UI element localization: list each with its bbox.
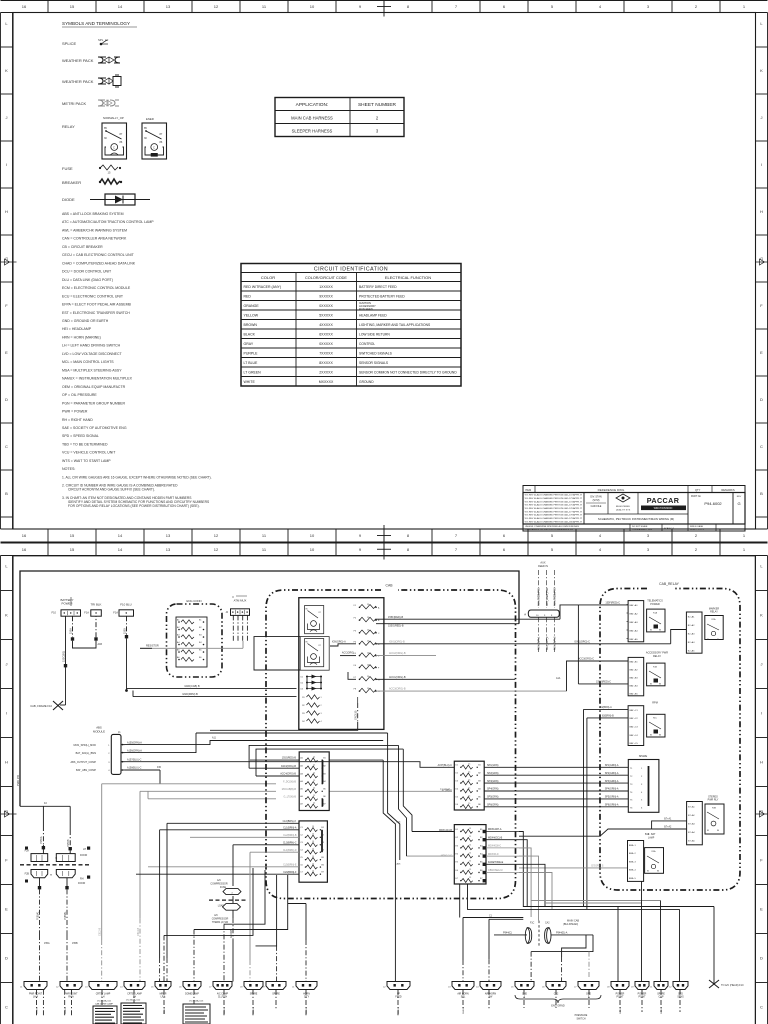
svg-text:FOR OPTIONS AND RELAY LOCATION: FOR OPTIONS AND RELAY LOCATIONS (SEE POW… <box>68 504 200 508</box>
svg-text:LH = LEFT HAND DRIVING SWITCH: LH = LEFT HAND DRIVING SWITCH <box>62 344 121 348</box>
svg-text:MAIN CAB HARNESS: MAIN CAB HARNESS <box>291 116 333 121</box>
svg-text:15: 15 <box>313 795 315 797</box>
connector: AIR HORN SOL <box>448 982 474 999</box>
page 1 sheet border and ruler zones <box>1 0 768 546</box>
svg-text:15: 15 <box>468 795 470 797</box>
relay symbol K2 energized <box>142 117 167 159</box>
svg-text:B7+A2: B7+A2 <box>688 814 695 817</box>
svg-text:AWL = AMBER/CHK WARNING SYSTEM: AWL = AMBER/CHK WARNING SYSTEM <box>62 228 127 232</box>
detail inset box: courtesy lamp RH <box>121 999 146 1024</box>
svg-text:81(BRN)-A: 81(BRN)-A <box>600 706 612 709</box>
wire: FRC fuse D out to cab relay <box>376 630 686 644</box>
svg-text:BBB+5: BBB+5 <box>629 878 637 880</box>
wires: block3 feeds <box>438 764 453 792</box>
svg-text:F_DC(06)-B: F_DC(06)-B <box>283 780 296 783</box>
svg-text:15: 15 <box>312 871 314 873</box>
svg-text:LH: LH <box>83 848 86 851</box>
svg-text:ACC3(ORG)-C: ACC3(ORG)-C <box>578 658 594 661</box>
svg-text:155J(RED)-B: 155J(RED)-B <box>282 757 297 760</box>
svg-text:SLEEPER HARNESS: SLEEPER HARNESS <box>292 129 333 134</box>
svg-text:SWITCH: SWITCH <box>576 1018 585 1020</box>
svg-text:2XXXXX: 2XXXXX <box>319 371 333 375</box>
telematics power relay pin block <box>627 600 664 642</box>
svg-text:SP5(GRN): SP5(GRN) <box>487 796 499 799</box>
svg-text:B7+A5: B7+A5 <box>688 840 695 843</box>
svg-text:CA2: CA2 <box>545 922 550 925</box>
svg-text:15: 15 <box>312 849 314 851</box>
svg-text:C512-B: C512-B <box>99 927 102 936</box>
svg-text:P944(D)-A: P944(D)-A <box>556 931 568 934</box>
svg-text:15: 15 <box>313 788 315 790</box>
svg-text:1XXXXX: 1XXXXX <box>319 285 333 289</box>
svg-text:F10 BLU: F10 BLU <box>120 603 131 607</box>
svg-text:B: B <box>5 491 8 496</box>
svg-text:85: 85 <box>650 630 652 632</box>
svg-text:C513-B: C513-B <box>137 927 140 936</box>
marker relay <box>705 608 723 642</box>
application / sheet number table <box>275 98 404 137</box>
svg-text:REGISTERED: REGISTERED <box>616 506 631 508</box>
svg-text:%% REV 04-AUG CHANGED PER ECN: %% REV 04-AUG CHANGED PER ECN 0041-174 A… <box>525 500 583 503</box>
separator dashed line between door pairs <box>20 864 90 866</box>
brace: engine ground group <box>515 995 601 1008</box>
svg-text:HEADLAMP FEED: HEADLAMP FEED <box>359 314 387 318</box>
svg-text:DLU = DATA LINK (DIAG PORT): DLU = DATA LINK (DIAG PORT) <box>62 278 113 282</box>
svg-text:172-B04A-C02: 172-B04A-C02 <box>126 999 141 1002</box>
svg-text:BAT+B3: BAT+B3 <box>630 677 639 680</box>
svg-text:SWITCHED SIGNALS: SWITCHED SIGNALS <box>359 352 393 356</box>
svg-text:RELAY: RELAY <box>653 655 661 658</box>
wire: ABS pin4 run <box>125 767 162 784</box>
wire: bulkhead through runs <box>494 934 527 936</box>
svg-text:CRTSY LAMP: CRTSY LAMP <box>127 993 142 996</box>
svg-text:SPL_A2: SPL_A2 <box>98 38 109 42</box>
svg-text:BBB+3: BBB+3 <box>629 861 637 863</box>
FRC relay K11 <box>300 637 329 671</box>
svg-text:I: I <box>761 162 762 167</box>
drawing number cell <box>691 493 742 525</box>
svg-text:TO A/C (HEAD) F10: TO A/C (HEAD) F10 <box>721 984 744 987</box>
svg-text:A/C: A/C <box>214 914 218 917</box>
accessory relay <box>647 663 665 686</box>
svg-text:CHAD = COMPUTERIZED AHEAD DATA: CHAD = COMPUTERIZED AHEAD DATA LINK <box>62 261 136 265</box>
svg-text:G: G <box>737 501 740 506</box>
heading: SYMBOLS AND TERMINOLOGY <box>62 21 137 27</box>
svg-text:PWR = POWER: PWR = POWER <box>62 410 88 414</box>
lower spare pin block <box>628 833 656 881</box>
svg-text:SHEET 1 OF 3: SHEET 1 OF 3 <box>690 529 705 531</box>
wire: FRC relay K11 input loop <box>254 637 356 670</box>
wire: ABS pin1 run to relay loop <box>125 737 383 745</box>
FRC relay K10 <box>305 606 324 634</box>
svg-text:RH: RH <box>80 878 84 881</box>
svg-text:14: 14 <box>118 4 123 9</box>
svg-text:GND(CAB) B: GND(CAB) B <box>184 684 200 688</box>
svg-text:1. ALL CIR WIRE GAUGES ARE 16: 1. ALL CIR WIRE GAUGES ARE 16 GAUGE, EXC… <box>62 476 212 480</box>
cab fuse block 4 <box>454 825 486 884</box>
wire: ABS pin2 run <box>125 733 388 753</box>
svg-text:4XXXXX: 4XXXXX <box>319 323 333 327</box>
svg-text:6XXXXX: 6XXXXX <box>319 333 333 337</box>
svg-text:BAT+A4: BAT+A4 <box>630 630 639 633</box>
svg-text:SPD = SPEED SIGNAL: SPD = SPEED SIGNAL <box>62 434 99 438</box>
connector: CRTSY LAMP LH <box>85 982 117 999</box>
svg-text:F7 (06)-C: F7 (06)-C <box>442 789 453 792</box>
title block bottom strip <box>523 524 745 531</box>
svg-text:BAT+A3: BAT+A3 <box>630 621 639 624</box>
title block main <box>523 493 745 525</box>
svg-text:15: 15 <box>313 765 315 767</box>
FRC resistor rows <box>302 695 321 723</box>
svg-text:15: 15 <box>469 861 471 863</box>
svg-text:E: E <box>760 350 763 355</box>
svg-text:85: 85 <box>647 871 649 873</box>
marker lamp pin block <box>686 612 702 653</box>
svg-text:BAT+B5: BAT+B5 <box>630 693 639 696</box>
svg-text:SP3(GRN)-A: SP3(GRN)-A <box>605 780 619 783</box>
svg-text:DOME LAMP: DOME LAMP <box>185 993 199 996</box>
svg-text:AUX_OUT_3: AUX_OUT_3 <box>553 636 556 650</box>
svg-text:(BULKHEAD): (BULKHEAD) <box>563 923 578 926</box>
svg-text:B2+A5: B2+A5 <box>688 650 695 653</box>
svg-text:DOOR: DOOR <box>78 882 85 885</box>
svg-text:GND B: GND B <box>37 1007 39 1014</box>
wire: block1 bus out <box>329 759 383 761</box>
svg-text:10: 10 <box>310 533 315 538</box>
svg-text:D: D <box>5 397 8 402</box>
connector: A/C COMP CLUTCH <box>209 982 232 999</box>
svg-text:BAT+C5: BAT+C5 <box>630 742 639 745</box>
wire: gray horizontal rail into block1 row4 <box>102 783 276 785</box>
svg-text:R1C: R1C <box>653 718 658 720</box>
svg-text:COLOR/CIRCUIT CODE: COLOR/CIRCUIT CODE <box>305 276 347 280</box>
svg-text:15: 15 <box>468 787 470 789</box>
wire: gray engine signal run <box>140 641 243 648</box>
svg-text:ACC4(ORG)-B: ACC4(ORG)-B <box>280 773 296 776</box>
connector: POWER POINT <box>607 982 629 999</box>
svg-text:WINCH DIVISION: WINCH DIVISION <box>654 508 673 510</box>
wire: gray rail 2 <box>137 791 140 981</box>
svg-text:MSA = MULTIPLEX STEERING ASSY: MSA = MULTIPLEX STEERING ASSY <box>62 368 122 372</box>
svg-text:GND(FRM) B: GND(FRM) B <box>182 692 198 696</box>
accessory power relay pin block <box>628 652 668 696</box>
svg-text:R4: R4 <box>302 721 304 723</box>
svg-text:86: 86 <box>717 830 719 832</box>
svg-text:CAB: CAB <box>386 584 394 588</box>
svg-text:E: E <box>760 907 763 912</box>
svg-text:CAD FILE: CAD FILE <box>591 505 602 508</box>
connector: CB2 <box>542 982 566 996</box>
svg-text:SENSOR SIGNALS: SENSOR SIGNALS <box>359 361 389 365</box>
svg-text:B7+A2: B7+A2 <box>664 826 672 829</box>
svg-text:PWR RLY: PWR RLY <box>708 799 719 802</box>
svg-text:%% REV 04-AUG CHANGED PER ECN: %% REV 04-AUG CHANGED PER ECN 0041-180 A… <box>525 520 583 523</box>
wire: marker lamp run left column <box>167 820 299 982</box>
svg-text:155B: 155B <box>123 628 126 634</box>
svg-text:86: 86 <box>659 735 661 737</box>
svg-text:LVD = LOW VOLTAGE DISCONNECT: LVD = LOW VOLTAGE DISCONNECT <box>62 352 122 356</box>
svg-text:PART No: PART No <box>691 495 702 498</box>
fuse symbol legend <box>62 165 121 175</box>
svg-text:BLACK: BLACK <box>244 333 256 337</box>
svg-text:14: 14 <box>118 533 123 538</box>
svg-text:GROUND: GROUND <box>359 380 374 384</box>
svg-text:155A: 155A <box>44 942 50 945</box>
svg-text:SP2(GRN)-A: SP2(GRN)-A <box>605 772 619 775</box>
svg-text:13: 13 <box>166 547 171 552</box>
svg-text:BAT+B4: BAT+B4 <box>630 685 639 688</box>
svg-text:D: D <box>760 397 763 402</box>
svg-text:MCCAB(B)-B: MCCAB(B)-B <box>282 788 297 791</box>
svg-text:P94-6002: P94-6002 <box>704 501 722 506</box>
svg-text:ECM = ELECTRONIC CONTROL MODUL: ECM = ELECTRONIC CONTROL MODULE <box>62 286 131 290</box>
svg-text:D1: D1 <box>301 677 303 679</box>
svg-text:SPARE: SPARE <box>250 993 258 996</box>
circuit breaker symbol legend <box>62 179 122 185</box>
svg-text:IGN4(ORG)-B: IGN4(ORG)-B <box>281 765 296 768</box>
svg-text:BAT+B2: BAT+B2 <box>630 669 639 672</box>
svg-text:SP6(GRN): SP6(GRN) <box>487 804 499 807</box>
svg-text:EFPA = ELECT FOOT PEDAL AIR AS: EFPA = ELECT FOOT PEDAL AIR ASSEMB <box>62 303 131 307</box>
svg-text:C: C <box>5 444 8 449</box>
svg-text:SENS: SENS <box>677 997 684 999</box>
svg-text:MDX4038-C: MDX4038-C <box>488 845 501 848</box>
svg-text:SP4(GRN)-A: SP4(GRN)-A <box>605 788 619 791</box>
svg-text:ACC2(ORG)-B: ACC2(ORG)-B <box>389 652 406 655</box>
svg-text:2: 2 <box>321 705 322 707</box>
svg-text:R3B: R3B <box>712 808 717 810</box>
label: pressure switch <box>575 1015 588 1020</box>
svg-text:AUX_FEED_PW3: AUX_FEED_PW3 <box>553 587 556 606</box>
svg-text:K: K <box>760 68 763 73</box>
svg-text:MDX4(GC)-B: MDX4(GC)-B <box>488 836 503 839</box>
svg-text:82(BRN)-B: 82(BRN)-B <box>602 715 614 718</box>
svg-text:15: 15 <box>468 772 470 774</box>
svg-text:ENG CONN: ENG CONN <box>186 599 201 603</box>
svg-text:155B: 155B <box>72 942 78 945</box>
svg-text:MODULE: MODULE <box>93 729 105 733</box>
svg-text:GND B: GND B <box>224 1007 226 1014</box>
svg-text:GND B: GND B <box>620 1007 622 1014</box>
svg-text:C: C <box>113 145 115 149</box>
svg-text:CL0(BRN)-X: CL0(BRN)-X <box>283 820 297 823</box>
svg-text:P155A: P155A <box>40 836 43 844</box>
wire: FRC fuse H out gray to accessory relay <box>376 658 628 691</box>
svg-text:C: C <box>760 1005 763 1010</box>
svg-text:155F(RED)-B: 155F(RED)-B <box>388 616 403 619</box>
svg-text:WTS = WAIT TO START LAMP: WTS = WAIT TO START LAMP <box>62 459 111 463</box>
svg-text:SHEET NUMBER: SHEET NUMBER <box>358 102 397 108</box>
svg-text:GND B: GND B <box>253 1007 255 1014</box>
ABS module connector <box>70 726 125 775</box>
svg-text:RH = RIGHT HAND: RH = RIGHT HAND <box>62 418 93 422</box>
svg-text:AUX_FEED_PW1: AUX_FEED_PW1 <box>538 587 541 606</box>
svg-text:86: 86 <box>657 871 659 873</box>
svg-text:85: 85 <box>650 735 652 737</box>
svg-text:R2: R2 <box>302 705 304 707</box>
svg-text:D7(GRY) S: D7(GRY) S <box>591 865 603 868</box>
svg-text:15: 15 <box>312 841 314 843</box>
svg-text:LP A: LP A <box>161 996 166 999</box>
connector: 4-pin junction above gray wire <box>225 596 249 641</box>
svg-text:%% REV 04-AUG CHANGED PER ECN: %% REV 04-AUG CHANGED PER ECN 0041-175 A… <box>525 504 583 507</box>
svg-text:A/C COMP: A/C COMP <box>217 993 229 996</box>
svg-text:BATTERY DIRECT FEED: BATTERY DIRECT FEED <box>359 285 397 289</box>
wire stubs below connectors <box>37 990 681 1016</box>
svg-text:A1B: A1B <box>98 643 103 646</box>
wire: gray rail into block1 row6 <box>148 791 276 799</box>
svg-text:10: 10 <box>310 4 315 9</box>
svg-text:REMARKS: REMARKS <box>721 488 734 492</box>
svg-text:F1A: F1A <box>84 611 89 615</box>
svg-text:15: 15 <box>312 834 314 836</box>
svg-text:DCU = DOOR CONTROL UNIT: DCU = DOOR CONTROL UNIT <box>62 270 112 274</box>
svg-text:SPD: SPD <box>678 994 683 996</box>
svg-text:A157(BLU)-C: A157(BLU)-C <box>438 764 453 767</box>
svg-text:12: 12 <box>214 547 219 552</box>
svg-text:15: 15 <box>468 780 470 782</box>
wire: battery pin1 down to frame splice <box>60 616 67 705</box>
svg-text:J: J <box>6 115 8 120</box>
svg-text:15: 15 <box>469 877 471 879</box>
wires: block4 left feed <box>407 829 455 857</box>
svg-text:15: 15 <box>312 856 314 858</box>
svg-text:NORMALLY_OP: NORMALLY_OP <box>103 116 124 120</box>
svg-text:A158(BLU)-C: A158(BLU)-C <box>127 767 142 770</box>
svg-text:IGN1(ORG)-B: IGN1(ORG)-B <box>389 640 405 643</box>
wire: lower distribution bus B <box>468 884 680 982</box>
svg-text:CB = CIRCUIT BREAKER: CB = CIRCUIT BREAKER <box>62 245 103 249</box>
svg-text:LT BLUE: LT BLUE <box>244 361 259 365</box>
svg-text:B2+A4: B2+A4 <box>688 641 695 644</box>
svg-text:FEED: FEED <box>395 997 401 999</box>
stereo relay <box>705 796 724 835</box>
svg-text:CONTROL: CONTROL <box>359 342 375 346</box>
svg-text:ENER: ENER <box>146 117 154 121</box>
svg-text:RUN FEED: RUN FEED <box>359 307 373 311</box>
splice symbol legend <box>62 38 109 46</box>
svg-text:WHITE: WHITE <box>244 380 256 384</box>
svg-text:B7+A3: B7+A3 <box>688 823 695 826</box>
svg-text:PWR POINT: PWR POINT <box>29 994 43 996</box>
svg-text:EST = ELECTRONIC TRANSFER SWIT: EST = ELECTRONIC TRANSFER SWITCH <box>62 311 130 315</box>
cab fuse block 3 <box>454 761 484 810</box>
PACCAR logo <box>641 496 686 510</box>
wire: block4 out run to stereo relay jog <box>519 818 687 837</box>
svg-text:CLUTCH: CLUTCH <box>218 997 228 999</box>
telematics relay <box>647 609 665 632</box>
svg-text:GND B: GND B <box>164 1007 166 1014</box>
wire: block4 gray out to spare E block <box>519 865 628 868</box>
svg-text:H: H <box>760 760 763 765</box>
cab fuse block 1 <box>299 752 329 811</box>
page 2 sheet border and ruler zones <box>1 539 768 1024</box>
svg-text:15: 15 <box>313 757 315 759</box>
svg-text:MDX36-D: MDX36-D <box>488 853 499 856</box>
svg-text:DOOR: DOOR <box>80 854 87 857</box>
svg-text:4: 4 <box>321 721 322 723</box>
svg-text:BAT+C2: BAT+C2 <box>630 717 639 720</box>
svg-text:BAT+A2: BAT+A2 <box>630 613 639 616</box>
svg-text:CAB_RELAY: CAB_RELAY <box>659 582 679 586</box>
svg-text:R2A: R2A <box>712 618 717 621</box>
abbreviation definitions list <box>62 212 154 463</box>
connector: TRI BLK feed <box>84 603 101 617</box>
svg-text:GND: GND <box>522 994 527 996</box>
connector: battery power feed <box>52 597 81 616</box>
svg-text:10: 10 <box>310 547 315 552</box>
svg-text:15: 15 <box>468 764 470 766</box>
svg-text:ATM MUX: ATM MUX <box>234 599 247 603</box>
svg-text:F1C: F1C <box>530 923 535 925</box>
svg-text:ATC = AUTOMATIC/AUTOM TRACTION: ATC = AUTOMATIC/AUTOM TRACTION CONTROL L… <box>62 220 154 224</box>
wire: b9 b10 feeds <box>277 904 306 982</box>
wire: F10 BLU down to ground bus junction <box>123 616 128 692</box>
connector: F10 BLU feed <box>113 603 133 617</box>
cab fuse block 2 <box>299 821 327 882</box>
wire bundle: mid verticals to bottom connectors <box>164 868 288 982</box>
wire: accessory relay pin4 feed <box>578 681 628 684</box>
svg-text:RPM: RPM <box>652 702 658 705</box>
wires: block4 right side outputs <box>486 828 519 872</box>
engine resistor pack <box>176 599 207 667</box>
svg-text:I: I <box>6 162 7 167</box>
svg-text:ABS_OUTPUT_COMP: ABS_OUTPUT_COMP <box>70 761 96 764</box>
svg-text:R3: R3 <box>302 713 304 715</box>
svg-text:PWR 155: PWR 155 <box>16 774 20 786</box>
svg-text:P944(C): P944(C) <box>503 931 512 934</box>
svg-text:REV: REV <box>737 496 742 498</box>
svg-text:ACC1(ORG)-B: ACC1(ORG)-B <box>389 676 406 679</box>
svg-text:LT GREEN: LT GREEN <box>244 371 262 375</box>
CAB region dash-dot boundary <box>266 584 516 899</box>
svg-text:CAN = CONTROLLER AREA NETWORK: CAN = CONTROLLER AREA NETWORK <box>62 237 127 241</box>
svg-text:CL2(BRN)-B: CL2(BRN)-B <box>283 834 297 837</box>
detail inset box: dome lamp <box>183 1000 210 1024</box>
svg-text:%% REV 04-AUG CHANGED PER ECN: %% REV 04-AUG CHANGED PER ECN 0041-176 A… <box>525 507 583 510</box>
stereo power pin block <box>687 802 703 845</box>
svg-text:AUX_OUT_1: AUX_OUT_1 <box>538 636 541 650</box>
metri pack connector symbol <box>62 100 119 106</box>
connector: PWR POINT RH A <box>56 982 82 999</box>
svg-text:15: 15 <box>70 533 75 538</box>
wire: FRC fuse A out pair <box>376 616 560 628</box>
svg-text:THERM (A) SW: THERM (A) SW <box>212 921 229 924</box>
CAB_RELAY region dash-dot boundary <box>600 582 740 890</box>
svg-text:MCN_SPD(L)_MOD: MCN_SPD(L)_MOD <box>73 744 96 747</box>
svg-text:155G(RED)-C: 155G(RED)-C <box>596 681 611 684</box>
svg-text:DO NOT SCALE: DO NOT SCALE <box>632 525 648 528</box>
svg-text:CAB, FRAME F10: CAB, FRAME F10 <box>30 704 52 708</box>
svg-text:TOLERANCES .XX +-.03 .XXX +-: TOLERANCES .XX +-.03 .XXX +-.010 ANGLES … <box>525 528 574 531</box>
svg-text:1: 1 <box>321 697 322 699</box>
spare terminal block <box>628 754 659 812</box>
svg-text:CL1(BRN)-A: CL1(BRN)-A <box>283 827 297 830</box>
svg-text:OEM = ORIGINAL EQUIP MANUFACTR: OEM = ORIGINAL EQUIP MANUFACTR <box>62 385 126 389</box>
svg-text:APPLICATION:: APPLICATION: <box>296 102 329 108</box>
svg-text:D: D <box>760 956 763 961</box>
svg-text:SP6(GRN)-A: SP6(GRN)-A <box>605 804 619 807</box>
lower spare relay <box>645 848 664 874</box>
wire: loop branch to door circuits <box>16 774 72 853</box>
weather pack connector symbol <box>62 57 120 63</box>
svg-text:%% REV 04-AUG CHANGED PER ECN: %% REV 04-AUG CHANGED PER ECN 0041-172 A… <box>525 494 583 497</box>
FRC fuse-relay center module <box>299 598 384 730</box>
svg-text:H: H <box>760 209 763 214</box>
connector: SPARE <box>262 982 286 996</box>
svg-text:ECU = ELECTRONIC CONTROL UNIT: ECU = ELECTRONIC CONTROL UNIT <box>62 294 124 298</box>
svg-text:BAT_IGN(L)_BMS: BAT_IGN(L)_BMS <box>76 752 97 755</box>
